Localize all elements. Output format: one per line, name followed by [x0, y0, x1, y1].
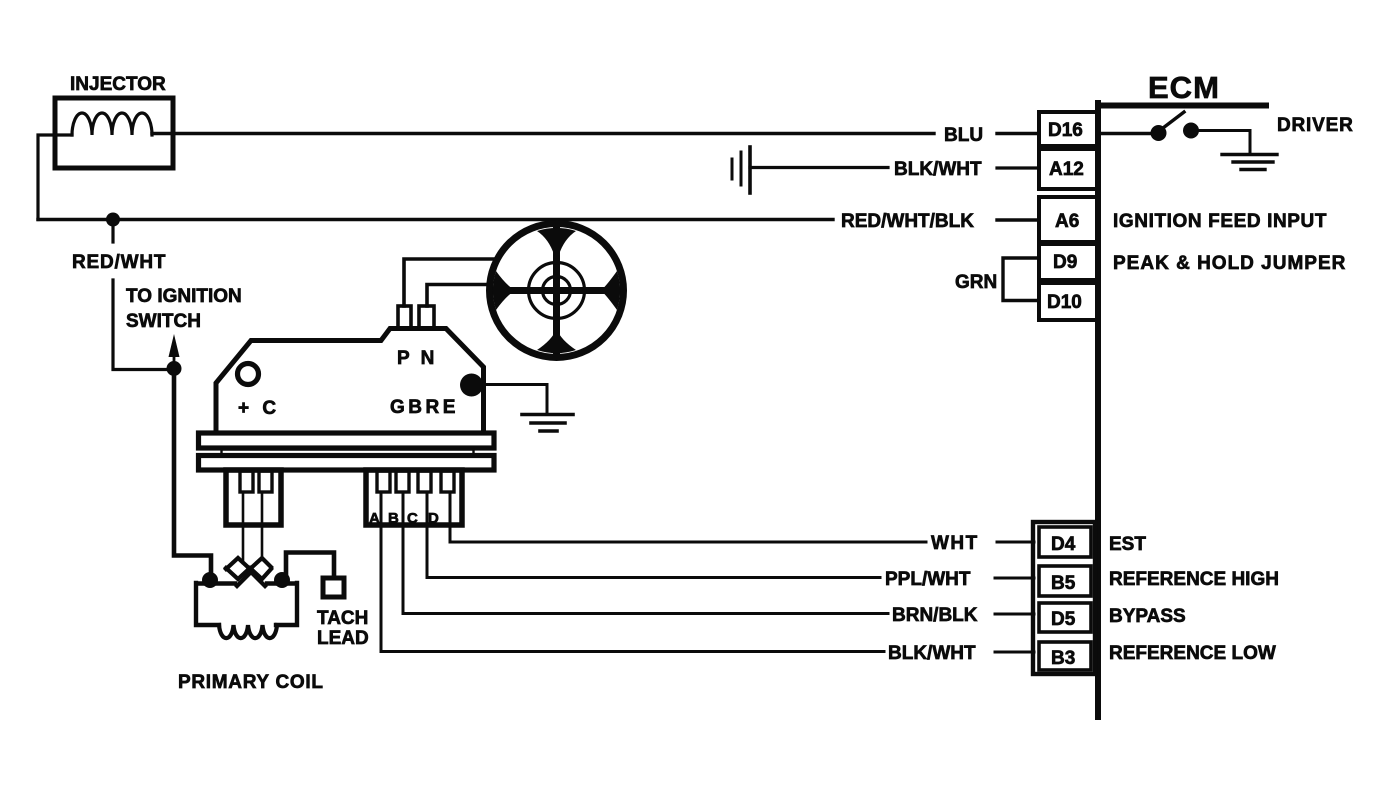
svg-text:D16: D16: [1048, 120, 1083, 141]
chassis ground sideways (BLK/WHT): [732, 147, 750, 193]
label RED/WHT: [72, 252, 166, 273]
svg-text:PEAK & HOLD JUMPER: PEAK & HOLD JUMPER: [1113, 253, 1346, 274]
svg-text:GRN: GRN: [955, 272, 997, 293]
svg-text:EST: EST: [1109, 534, 1146, 555]
node junction RED/WHT on bus: [106, 213, 120, 227]
svg-text:B5: B5: [1051, 573, 1076, 594]
svg-text:TACH: TACH: [317, 608, 368, 629]
pin P terminal: [398, 306, 411, 328]
jumper GRN bracket D9-D10: [1003, 258, 1039, 301]
label RED/WHT/BLK: [841, 211, 974, 232]
pin A terminal: [377, 471, 390, 492]
ECM pin D10 box: [1039, 283, 1099, 320]
node primary coil right: [274, 572, 290, 588]
svg-text:BLU: BLU: [944, 125, 983, 146]
pin C terminal: [259, 471, 272, 492]
wire tach lead: [286, 553, 334, 576]
connector J2 (A B C D) shell: [366, 470, 462, 525]
driver switch contact left: [1151, 125, 1167, 141]
label REFERENCE HIGH: [1109, 569, 1279, 590]
pin C2 terminal: [418, 471, 431, 492]
ECM pin D16 box: [1039, 112, 1099, 146]
ECM pin B5 box: [1039, 566, 1091, 596]
ECM lower connector shell: [1033, 522, 1095, 674]
connector J1 (+ C) shell: [226, 470, 281, 525]
svg-text:D5: D5: [1051, 609, 1076, 630]
wire RED/WHT/BLK bus to ECM A6: [38, 218, 833, 221]
ECM pin D5 box: [1039, 603, 1091, 632]
ECM pin A6 box: [1039, 197, 1099, 242]
pin B terminal: [396, 471, 409, 492]
module mounting plate upper: [199, 433, 495, 448]
label BLU: [944, 125, 983, 146]
svg-text:C: C: [407, 510, 418, 527]
svg-text:REFERENCE LOW: REFERENCE LOW: [1109, 643, 1276, 664]
label G B R E: [390, 397, 459, 418]
label P N: [397, 348, 437, 369]
label DRIVER: [1277, 115, 1354, 136]
label PEAK & HOLD JUMPER: [1113, 253, 1346, 274]
primary coil winding scallops: [219, 625, 277, 638]
svg-text:D4: D4: [1051, 534, 1076, 555]
label PRIMARY COIL: [178, 672, 324, 693]
svg-text:A: A: [369, 510, 380, 527]
svg-text:GBRE: GBRE: [390, 397, 459, 418]
wire BLK/WHT stub at B3: [995, 651, 1034, 654]
wire BLK/WHT stub at A12: [997, 166, 1039, 169]
primary coil T1 case: [196, 583, 297, 625]
svg-text:INJECTOR: INJECTOR: [70, 74, 166, 95]
svg-text:BYPASS: BYPASS: [1109, 606, 1186, 627]
svg-text:WHT: WHT: [931, 533, 979, 554]
module gasket strip: [222, 450, 474, 456]
wire BLU stub at D16: [997, 132, 1039, 135]
driver switch wire from D16: [1101, 132, 1152, 136]
svg-text:LEAD: LEAD: [317, 628, 369, 649]
wire C to primary coil winding: [261, 492, 264, 560]
svg-text:+ C: + C: [238, 398, 280, 419]
svg-text:SWITCH: SWITCH: [126, 311, 201, 332]
ECM pin A12 box: [1039, 149, 1099, 189]
svg-text:D: D: [428, 510, 439, 527]
svg-text:A6: A6: [1055, 211, 1079, 232]
label BYPASS: [1109, 606, 1186, 627]
svg-text:ECM: ECM: [1148, 70, 1220, 105]
primary coil crossed winding: [226, 558, 271, 586]
label WHT: [931, 533, 979, 554]
wire C2 to PPL/WHT: [427, 492, 880, 578]
node module ground terminal: [460, 374, 483, 397]
wire RED/WHT drop below junction: [111, 226, 114, 242]
label REFERENCE LOW: [1109, 643, 1276, 664]
labels A B C D: [369, 510, 439, 527]
driver switch contact right: [1183, 123, 1199, 139]
svg-text:B3: B3: [1051, 648, 1075, 669]
driver switch blade: [1163, 112, 1184, 128]
label TO IGNITION SWITCH: [126, 286, 242, 332]
label BRN/BLK: [892, 605, 978, 626]
svg-text:PRIMARY COIL: PRIMARY COIL: [178, 672, 324, 693]
svg-text:REFERENCE HIGH: REFERENCE HIGH: [1109, 569, 1279, 590]
wire BRN/BLK stub at D5: [995, 613, 1034, 616]
label TACH LEAD: [317, 608, 369, 649]
node ignition switch tap: [167, 361, 182, 376]
label IGNITION FEED INPUT: [1113, 211, 1327, 232]
wire BLK/WHT to ECM A12: [750, 166, 888, 169]
wire pin P to pickup coil: [404, 259, 495, 306]
label + C: [238, 398, 280, 419]
svg-text:D9: D9: [1053, 252, 1077, 273]
wire injector left leg to RED/WHT/BLK bus: [38, 135, 72, 220]
svg-text:B: B: [388, 510, 399, 527]
wire from tap down to primary coil: [174, 368, 211, 578]
svg-text:RED/WHT/BLK: RED/WHT/BLK: [841, 211, 974, 232]
ECM pin B3 box: [1039, 642, 1091, 670]
wire WHT stub at D4: [997, 541, 1034, 544]
label BLK/WHT low: [888, 643, 976, 664]
wire + to primary coil winding: [242, 492, 245, 563]
svg-text:IGNITION FEED INPUT: IGNITION FEED INPUT: [1113, 211, 1327, 232]
module mounting plate lower: [199, 456, 495, 471]
ignition module U1 body: [216, 329, 484, 433]
pin D terminal: [441, 471, 454, 492]
ground symbol at driver: [1222, 155, 1277, 170]
pin N terminal: [419, 306, 434, 328]
wire A to BLK/WHT low: [381, 492, 884, 652]
svg-text:BRN/BLK: BRN/BLK: [892, 605, 978, 626]
wire pin N to pickup coil: [427, 285, 488, 307]
tach lead terminal box: [323, 578, 344, 597]
ECM boundary line: [1098, 103, 1266, 717]
label GRN: [955, 272, 997, 293]
wire RED/WHT down to ignition-switch node: [113, 280, 170, 370]
label ECM: [1148, 70, 1220, 105]
injector solenoid L1: [55, 98, 173, 168]
ground symbol at module: [522, 415, 573, 432]
svg-text:D10: D10: [1047, 292, 1082, 313]
pin + terminal: [240, 471, 253, 492]
wire D to WHT (EST): [450, 492, 926, 542]
svg-text:RED/WHT: RED/WHT: [72, 252, 166, 273]
svg-text:BLK/WHT: BLK/WHT: [894, 159, 982, 180]
svg-text:TO IGNITION: TO IGNITION: [126, 286, 242, 307]
wire driver to ground: [1198, 131, 1250, 154]
svg-text:DRIVER: DRIVER: [1277, 115, 1354, 136]
arrow to ignition switch: [169, 334, 180, 361]
label BLK/WHT: [894, 159, 982, 180]
label EST: [1109, 534, 1146, 555]
wire B to BRN/BLK: [403, 492, 888, 614]
wire BLU from injector to ECM D16: [152, 132, 934, 135]
distributor pickup coil assembly: [490, 224, 624, 358]
ECM pin D9 box: [1039, 244, 1099, 280]
node primary coil left: [202, 572, 218, 588]
wire RED/WHT/BLK stub at A6: [997, 218, 1039, 221]
wire PPL/WHT stub at B5: [995, 577, 1034, 580]
svg-text:P N: P N: [397, 348, 437, 369]
label PPL/WHT: [885, 569, 971, 590]
module mounting hole: [238, 364, 259, 385]
ECM pin D4 box: [1039, 527, 1091, 557]
svg-text:A12: A12: [1049, 159, 1084, 180]
svg-text:PPL/WHT: PPL/WHT: [885, 569, 971, 590]
svg-text:BLK/WHT: BLK/WHT: [888, 643, 976, 664]
wire module ground: [470, 385, 547, 415]
label INJECTOR: [70, 74, 166, 95]
